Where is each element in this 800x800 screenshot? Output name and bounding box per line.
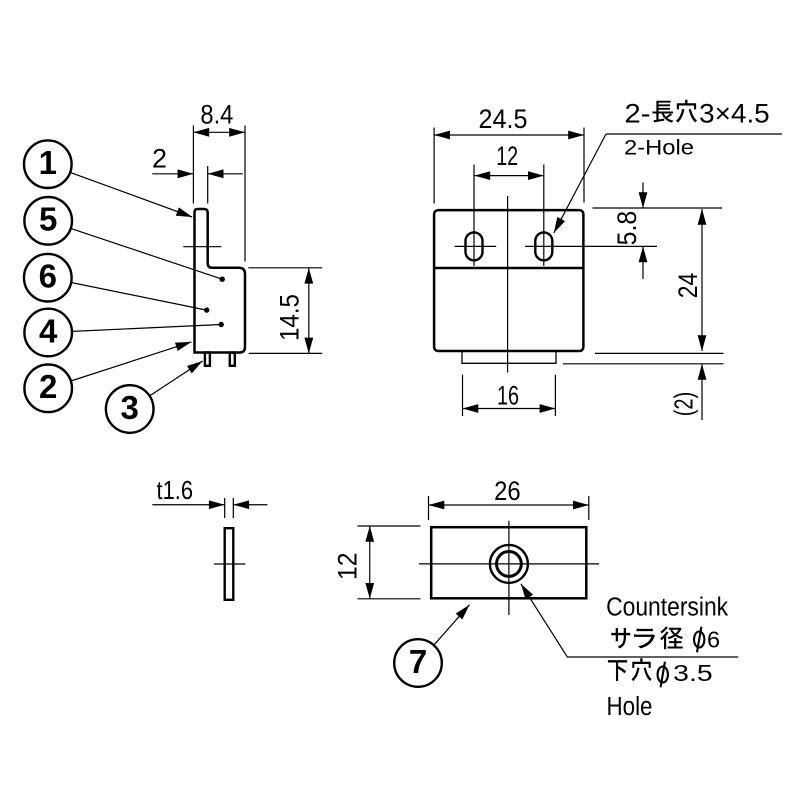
svg-text:t1.6: t1.6 xyxy=(157,475,194,505)
svg-text:12: 12 xyxy=(496,141,518,171)
svg-text:2-: 2- xyxy=(625,99,651,129)
svg-text:3.5: 3.5 xyxy=(673,660,713,686)
svg-text:5.8: 5.8 xyxy=(612,211,642,246)
svg-text:4: 4 xyxy=(39,312,58,349)
svg-text:24.5: 24.5 xyxy=(479,104,528,134)
svg-text:Countersink: Countersink xyxy=(606,593,728,621)
svg-text:3×4.5: 3×4.5 xyxy=(699,99,770,129)
svg-text:1: 1 xyxy=(39,144,57,181)
svg-text:(2): (2) xyxy=(669,392,699,417)
svg-text:26: 26 xyxy=(494,476,521,506)
svg-text:5: 5 xyxy=(39,201,57,238)
svg-text:3: 3 xyxy=(121,389,139,426)
svg-text:24: 24 xyxy=(673,273,703,299)
svg-text:8.4: 8.4 xyxy=(200,99,233,129)
svg-text:2-Hole: 2-Hole xyxy=(624,136,694,159)
svg-text:12: 12 xyxy=(332,553,362,581)
svg-text:2: 2 xyxy=(152,143,167,173)
svg-text:2: 2 xyxy=(39,368,57,405)
svg-text:6: 6 xyxy=(707,627,720,653)
svg-text:7: 7 xyxy=(409,643,427,680)
svg-text:Hole: Hole xyxy=(607,693,653,721)
svg-text:16: 16 xyxy=(497,381,519,411)
svg-text:6: 6 xyxy=(39,258,57,295)
svg-text:14.5: 14.5 xyxy=(275,294,305,341)
